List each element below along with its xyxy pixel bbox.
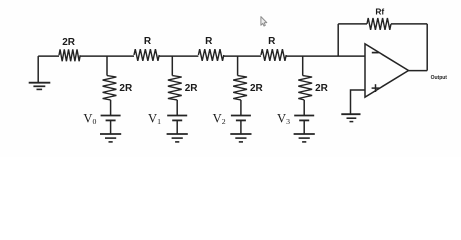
battery V0 (digital input bit source) — [83, 111, 120, 126]
svg-text:Rf: Rf — [375, 6, 384, 16]
wire (feedback drop to output node) — [426, 24, 428, 71]
wire — [110, 100, 112, 115]
battery V1 (digital input bit source) — [148, 111, 187, 126]
svg-text:2R: 2R — [250, 83, 264, 94]
resistor 2R (branch 3, vertical) — [298, 76, 328, 100]
wire — [303, 100, 305, 115]
wire — [38, 55, 59, 57]
mouse cursor overlay — [261, 17, 267, 26]
battery V2 (digital input bit source) — [213, 111, 251, 126]
node A (ladder tap 0) / wire — [106, 56, 108, 76]
wire — [224, 55, 261, 57]
wire — [240, 100, 242, 115]
svg-text:R: R — [205, 36, 213, 47]
resistor 2R (termination, horizontal) — [59, 37, 80, 61]
resistor 2R (branch 1, vertical) — [168, 76, 198, 100]
wire — [159, 55, 198, 57]
node D (ladder tap 3) / wire — [302, 56, 304, 76]
resistor R (ladder series #2, horizontal) — [198, 36, 223, 61]
ground (below battery V2) — [230, 134, 251, 142]
wire — [240, 120, 242, 133]
svg-text:2R: 2R — [119, 83, 133, 94]
ground (below battery V3) — [294, 134, 315, 142]
wire — [338, 23, 367, 25]
wire (non-inverting input) — [351, 90, 366, 114]
wire — [80, 55, 134, 57]
node C (ladder tap 2) / wire — [237, 56, 239, 76]
svg-text:R: R — [268, 36, 276, 47]
resistor R (ladder series #3, horizontal) — [261, 36, 286, 61]
resistor 2R (branch 2, vertical) — [233, 76, 263, 100]
wire — [303, 120, 305, 133]
op-amp U1 — [365, 44, 409, 97]
svg-text:2R: 2R — [62, 37, 76, 48]
ground (below battery V1) — [167, 134, 188, 142]
svg-text:2R: 2R — [315, 83, 329, 94]
wire (feedback riser from inverting node) — [337, 24, 339, 56]
node B (ladder tap 1) / wire — [171, 56, 173, 76]
ground (below battery V0) — [100, 134, 121, 142]
wire (op-amp output) — [409, 70, 428, 72]
resistor 2R (branch 0, vertical) — [103, 76, 133, 100]
wire (rail into op-amp inverting input) — [286, 55, 365, 57]
ground (op-amp + input) — [341, 114, 360, 121]
ground (left termination of ladder) — [29, 56, 51, 89]
wire — [391, 23, 427, 25]
svg-text:2R: 2R — [185, 83, 199, 94]
wire — [176, 100, 178, 115]
resistor Rf (feedback, horizontal) — [367, 6, 391, 29]
resistor R (ladder series #1, horizontal) — [134, 36, 159, 61]
svg-text:Output: Output — [431, 75, 448, 81]
wire — [176, 120, 178, 133]
wire — [110, 120, 112, 133]
battery V3 (digital input bit source) — [277, 111, 314, 126]
svg-text:R: R — [144, 36, 152, 47]
